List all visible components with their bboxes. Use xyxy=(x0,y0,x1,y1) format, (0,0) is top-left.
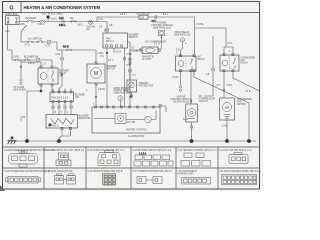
svg-text:15A: 15A xyxy=(70,17,75,20)
svg-text:PROTECTOR: PROTECTOR xyxy=(139,86,154,88)
switch arm arc off feed xyxy=(21,26,27,34)
wire: branch up to A/C bus xyxy=(96,17,98,22)
blower motor M1 xyxy=(87,62,117,85)
svg-text:E-24 COND FAN MOTOR (4P) GY 2: E-24 COND FAN MOTOR (4P) GY 2 xyxy=(88,149,126,152)
wire gauge label cluster top feed xyxy=(51,14,234,45)
svg-text:G-11 ECM CONN (3P) BR: G-11 ECM CONN (3P) BR xyxy=(46,171,73,173)
svg-text:0.5 L: 0.5 L xyxy=(120,14,126,16)
wire: connector block top stubs xyxy=(53,89,71,92)
svg-text:RELAY: RELAY xyxy=(241,62,249,65)
svg-text:G: G xyxy=(9,5,13,11)
wire: motor feed row y=50 xyxy=(57,49,96,51)
title bar rule xyxy=(3,12,260,14)
connector view C-11 drawing xyxy=(182,178,211,185)
wire: motor bottom to panel xyxy=(95,85,105,107)
wire: row3 down-arrow branch xyxy=(13,60,26,91)
svg-text:0.85: 0.85 xyxy=(20,24,25,26)
connector view C-02 drawing xyxy=(56,153,71,166)
svg-text:0.5 L: 0.5 L xyxy=(163,14,169,16)
connector view C-12 drawing xyxy=(222,175,257,185)
node: HOT feed junction dot xyxy=(43,13,64,22)
wire: relay K1 top stub from row3 xyxy=(21,60,52,66)
wire: main feed row y=21.5 xyxy=(19,21,107,23)
wire: panel right stub xyxy=(159,105,166,113)
connector view C-10 drawing xyxy=(137,177,162,184)
fan switch connector block xyxy=(50,91,85,102)
svg-text:0.5 B/L: 0.5 B/L xyxy=(197,24,205,26)
connector view C-05 drawing xyxy=(181,153,211,166)
fuse F2 30A inside junction box xyxy=(16,17,18,23)
svg-text:HI LO: HI LO xyxy=(53,125,59,127)
connector table grid xyxy=(3,147,260,189)
svg-text:0.5 G: 0.5 G xyxy=(45,45,51,47)
svg-text:15A: 15A xyxy=(140,17,145,20)
page border xyxy=(3,2,260,190)
svg-text:E-11: E-11 xyxy=(104,31,109,33)
svg-text:HEATER & AIR CONDITIONER SYSTE: HEATER & AIR CONDITIONER SYSTEM xyxy=(24,5,101,10)
svg-text:0.85 L: 0.85 L xyxy=(38,24,45,26)
svg-text:0.5 G: 0.5 G xyxy=(63,47,69,49)
wire: K2 coil to ECM xyxy=(173,72,182,92)
scan artifact bottom-left corner xyxy=(0,185,5,191)
G index box xyxy=(3,2,22,13)
svg-text:E-11: E-11 xyxy=(59,18,64,20)
ground symbol chassis xyxy=(8,136,17,144)
wire: fusebox left drop xyxy=(8,25,12,60)
svg-text:0.5 B: 0.5 B xyxy=(116,52,122,54)
wire: row2 A/C switch row y=42 xyxy=(21,41,57,43)
left column wire x=62 xyxy=(56,50,64,92)
fuse 15A A/C xyxy=(70,17,77,22)
svg-text:RELAY: RELAY xyxy=(198,58,206,61)
svg-text:HEATER CONTROL: HEATER CONTROL xyxy=(126,129,148,132)
svg-text:F-11 HEATER CONTROL (9P) GY 1-: F-11 HEATER CONTROL (9P) GY 1-4 xyxy=(178,149,218,152)
wire: K2 contact to compressor xyxy=(190,72,192,104)
long vertical harness wire x=213 xyxy=(204,36,214,96)
wire: feed drop into switch box xyxy=(99,22,113,34)
svg-text:0.5 B: 0.5 B xyxy=(133,51,139,53)
svg-text:G: G xyxy=(67,112,69,114)
blower resistor R1 xyxy=(46,115,91,129)
wire: fan motor to ground xyxy=(222,120,228,141)
svg-text:(B): (B) xyxy=(87,29,90,31)
wire: switch drop x=122 xyxy=(123,48,132,107)
lamp element on row3 xyxy=(36,58,40,62)
svg-text:CLUTCH: CLUTCH xyxy=(199,101,209,103)
svg-text:F-05 BLOWER SWITCH (8P) W 1-2: F-05 BLOWER SWITCH (8P) W 1-2 A xyxy=(133,149,172,152)
heater control panel xyxy=(92,106,160,133)
node dot G2 xyxy=(57,139,61,143)
connector in-line C1 xyxy=(59,18,66,27)
svg-text:0.5 B: 0.5 B xyxy=(245,91,251,93)
svg-text:A/C COMPRESSOR: A/C COMPRESSOR xyxy=(145,41,166,44)
svg-text:0.85 B: 0.85 B xyxy=(98,89,105,91)
fuse on row3 xyxy=(14,56,39,64)
svg-text:I-11 MAIN HARNESS WIRE (16P) B: I-11 MAIN HARNESS WIRE (16P) B 1-8 xyxy=(220,170,262,173)
svg-text:0.5 B: 0.5 B xyxy=(222,126,228,128)
wire: drop to row2 xyxy=(20,34,22,43)
wire: row3 blower feed y=60 xyxy=(12,59,52,61)
svg-text:(HI): (HI) xyxy=(59,76,63,78)
svg-text:HOT AT ALL TIMES: HOT AT ALL TIMES xyxy=(43,13,64,16)
fusible link xyxy=(38,21,45,27)
node dot G3 xyxy=(190,139,194,143)
connector view C-08 drawing xyxy=(55,174,76,184)
svg-text:(SEE PAGE 00): (SEE PAGE 00) xyxy=(174,34,190,37)
fuse 15A BLOWER xyxy=(25,17,36,22)
svg-text:0.85 L: 0.85 L xyxy=(77,25,84,27)
thermo protector cluster xyxy=(127,50,153,98)
svg-text:CLUTCH: CLUTCH xyxy=(142,59,152,61)
connector view C-03 drawing xyxy=(98,151,120,166)
wire: PCM drive to clutch xyxy=(154,38,162,49)
svg-text:RESISTOR: RESISTOR xyxy=(79,118,91,120)
wire: branch to condenser fan relay xyxy=(195,28,234,54)
svg-text:0.85: 0.85 xyxy=(5,31,10,33)
svg-text:E-12 MAGNETIC CLUTCH (1P) B 1-: E-12 MAGNETIC CLUTCH (1P) B 1-2 xyxy=(46,149,85,152)
relay contact symbol on feed xyxy=(87,20,96,31)
A/C relay K2 xyxy=(176,55,206,72)
svg-text:(SEE PAGE 00-0): (SEE PAGE 00-0) xyxy=(153,27,171,30)
wire: switch drop x=107 xyxy=(101,48,109,107)
svg-text:H-02 THERMO PROTECTOR (2P) GY: H-02 THERMO PROTECTOR (2P) GY xyxy=(133,171,173,173)
wire: motor top stub xyxy=(95,50,97,62)
node dot G1 xyxy=(25,139,29,143)
node dot G5 xyxy=(247,139,251,143)
wire gauge labels mid xyxy=(5,31,251,121)
svg-text:HARNESS (6P): HARNESS (6P) xyxy=(178,173,194,176)
svg-text:L/B: L/B xyxy=(109,25,113,27)
svg-text:ILLUMINATION: ILLUMINATION xyxy=(128,135,144,138)
blower switch box S1 xyxy=(103,33,139,48)
condenser fan relay K3 xyxy=(220,54,256,72)
fuse on motor row xyxy=(63,47,72,51)
svg-text:A/C SW: A/C SW xyxy=(127,121,136,124)
connector mark on upper bus xyxy=(152,15,158,23)
svg-text:G-06 CONDENSER FAN MOTOR (2P): G-06 CONDENSER FAN MOTOR (2P) GY-B xyxy=(4,170,50,173)
svg-text:0.5 B: 0.5 B xyxy=(173,77,179,79)
PCM driver component U1 xyxy=(158,31,164,38)
fuse F1 30A inside junction box xyxy=(7,17,9,23)
FROM RELAY note xyxy=(174,31,190,56)
wire: switch drop x=130 xyxy=(128,42,139,107)
svg-text:0.5 Y: 0.5 Y xyxy=(108,60,114,62)
junction box (fuse block) top-left xyxy=(6,14,20,25)
connector view C-07 drawing xyxy=(6,177,41,184)
wire: resistor to ground bus xyxy=(61,127,72,129)
svg-text:0.85: 0.85 xyxy=(56,54,61,56)
ground bus wire xyxy=(12,140,256,142)
svg-text:FAN SW 1 2 3 4: FAN SW 1 2 3 4 xyxy=(52,96,69,99)
connector view C-06 drawing xyxy=(229,153,248,164)
svg-text:0.5 B: 0.5 B xyxy=(227,85,233,87)
svg-text:SWITCH: SWITCH xyxy=(129,37,138,39)
wire: row2 drop x=57 xyxy=(56,42,58,50)
PCM text block xyxy=(151,23,173,30)
lamp element on row2 xyxy=(45,40,52,47)
svg-text:0.5 L: 0.5 L xyxy=(228,43,234,45)
svg-text:0.5 L: 0.5 L xyxy=(99,19,105,21)
svg-text:G-11: G-11 xyxy=(183,119,189,121)
svg-text:A/C SWITCH: A/C SWITCH xyxy=(28,37,42,40)
svg-text:15A BLWR: 15A BLWR xyxy=(25,17,36,20)
svg-text:M: M xyxy=(94,71,98,77)
svg-text:0.85 L: 0.85 L xyxy=(59,25,66,27)
wire: switch drop x=114 short xyxy=(113,48,115,53)
svg-text:0.5 L: 0.5 L xyxy=(152,21,158,23)
wire: relay K1 right bottom drop xyxy=(51,86,53,91)
wire: diagonal to right ground xyxy=(194,72,249,141)
svg-text:SW 1-4: SW 1-4 xyxy=(106,41,114,43)
svg-text:0.85 L: 0.85 L xyxy=(14,57,21,59)
blower relay K1 xyxy=(38,66,69,86)
compressor control row y=50 xyxy=(130,47,160,61)
svg-text:0.85 L: 0.85 L xyxy=(98,53,105,55)
connector view C-01 drawing xyxy=(9,151,38,168)
wire: K3 bottom right diagonal xyxy=(233,72,260,91)
node dot G4 xyxy=(225,139,229,143)
connector view C-04 drawing xyxy=(134,154,173,167)
svg-text:MOTOR: MOTOR xyxy=(107,68,116,70)
wire: relay K1 bottom to ground branch xyxy=(21,86,43,141)
wires: block down to resistor xyxy=(52,102,72,114)
fuse on row2 xyxy=(25,37,42,46)
svg-text:0.5 G: 0.5 G xyxy=(25,45,31,47)
svg-text:G-18 JOINT CONNECTOR (9P) B: G-18 JOINT CONNECTOR (9P) B xyxy=(88,171,123,173)
connector view C-09 drawing xyxy=(103,174,116,186)
svg-text:MOTOR: MOTOR xyxy=(237,104,246,106)
wire: main bus drop to A/C relay xyxy=(194,17,196,55)
node: FROM POWER source circle xyxy=(114,88,132,107)
svg-text:0.85 B: 0.85 B xyxy=(28,63,35,65)
svg-text:0.5 B: 0.5 B xyxy=(127,54,133,56)
svg-text:(SEE PAGE): (SEE PAGE) xyxy=(13,88,26,91)
A/C compressor clutch L1 xyxy=(186,95,216,122)
wire: K3 bottom left to fan motor xyxy=(217,72,233,98)
svg-text:(ECM/PCM) 00: (ECM/PCM) 00 xyxy=(173,102,189,104)
condenser fan motor M2 xyxy=(220,98,253,120)
svg-text:G-04 A/C SW (6P) W-B-G 1 2 3: G-04 A/C SW (6P) W-B-G 1 2 3 xyxy=(220,149,253,152)
fuse 15A A/C on upper bus xyxy=(137,12,151,19)
wire: clutch to ground xyxy=(190,122,192,141)
switch element on row2 xyxy=(37,40,43,43)
svg-text:M: M xyxy=(225,105,229,110)
svg-text:0.5 G: 0.5 G xyxy=(154,44,160,46)
svg-text:0.85 L: 0.85 L xyxy=(51,19,58,21)
wire: upper A/C bus y=17 xyxy=(97,16,195,18)
ECM text block xyxy=(170,97,192,104)
